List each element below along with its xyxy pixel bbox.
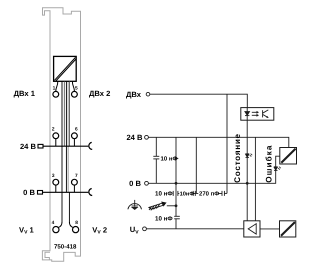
optocoupler phototransistor (263, 110, 269, 118)
svg-text:1: 1 (53, 85, 56, 91)
jumper contact fork row3 (89, 189, 92, 196)
Uv rail wire (147, 228, 244, 230)
wire bundle lead to 24V row (63, 81, 65, 146)
optocoupler light arrows (252, 111, 259, 117)
svg-text:10 нФ: 10 нФ (155, 191, 173, 198)
wire bundle lead to terminal 4 (61, 81, 63, 222)
terminal 1 (53, 91, 59, 97)
Uv terminal circle (143, 227, 147, 231)
svg-text:Ошибка: Ошибка (265, 145, 274, 183)
svg-text:ДВх 2: ДВх 2 (89, 89, 110, 98)
24V connector square (38, 144, 43, 148)
DVx terminal circle (146, 92, 150, 96)
svg-text:ДВх 1: ДВх 1 (14, 89, 36, 98)
svg-text:Состояние: Состояние (233, 133, 242, 183)
wire vertical rail v2 24V to cap row (195, 137, 197, 193)
junction dot earth-v1 (175, 204, 178, 207)
junction dot 0V-v1 (175, 182, 178, 185)
wire to terminal 8 (69, 222, 73, 228)
tick on node rail (175, 157, 179, 159)
svg-text:24 В: 24 В (126, 133, 143, 142)
capacitor C2 plates (172, 191, 174, 196)
status indicator box (280, 221, 296, 237)
module center seam (67, 82, 69, 193)
converter box U1 (54, 56, 77, 81)
svg-text:VV 1: VV 1 (19, 225, 35, 235)
terminal 5 (72, 91, 78, 97)
terminal 2 (53, 133, 59, 139)
error LED diode D2 (274, 167, 281, 171)
svg-text:0 В: 0 В (23, 188, 35, 197)
wire stem terminal 6 (73, 139, 75, 147)
error indicator box (280, 148, 297, 165)
terminal 7 (72, 179, 78, 185)
24V rail wire (149, 137, 289, 147)
wire to terminal 5 (72, 81, 74, 91)
earth row wire (167, 205, 176, 207)
DVx rail wire (150, 94, 247, 107)
terminal 6 (72, 133, 78, 139)
wire to terminal 4 (58, 222, 62, 228)
svg-text:2: 2 (52, 127, 55, 133)
svg-text:10нФ: 10нФ (180, 192, 195, 198)
svg-text:24 В: 24 В (20, 142, 37, 151)
wire to terminal 8 vertical (68, 192, 70, 222)
wire C1 to 0V (155, 159, 157, 183)
wire C5 to Uv rail (175, 219, 177, 229)
capacitor C5 on v1 plates (174, 215, 180, 217)
terminal 3 (53, 179, 59, 185)
capacitor C4 plates (198, 191, 224, 196)
wire stem terminal 7 (73, 185, 75, 192)
0V row wire (43, 191, 89, 193)
svg-text:10 нФ: 10 нФ (161, 155, 178, 162)
optocoupler U2 box (241, 108, 274, 121)
driver box with triangle (244, 221, 260, 237)
wire bundle lead to 0V row (65, 81, 67, 192)
svg-text:0 В: 0 В (129, 179, 141, 188)
module housing outline 750-418 (42, 8, 80, 261)
0V connector square (38, 191, 43, 195)
wire to terminal 1 (56, 81, 58, 91)
wire vertical rail v1 24V to C5 (175, 137, 177, 216)
capacitor C3 plates (179, 191, 195, 196)
wire C4 to DVx branch (224, 192, 227, 194)
wire 24V to C1 (155, 137, 157, 156)
wire stem terminal 2 (55, 139, 57, 147)
svg-text:VV 2: VV 2 (92, 225, 107, 235)
shield contact arrow symbol (149, 202, 167, 211)
svg-text:750-418: 750-418 (54, 244, 77, 251)
svg-text:8: 8 (75, 220, 78, 226)
svg-text:10 нФ: 10 нФ (155, 215, 173, 222)
DVx branch wire to cap row (226, 94, 228, 193)
capacitor C1 plates (153, 156, 159, 159)
24V row wire (43, 145, 88, 147)
functional earth symbol (128, 200, 142, 210)
svg-text:UV: UV (130, 225, 139, 235)
terminal 4 (53, 227, 59, 233)
jumper contact fork row2 (89, 142, 92, 149)
0V rail wire (149, 156, 280, 183)
svg-text:ДВх: ДВх (126, 90, 142, 99)
24V drop wire to driver (254, 137, 256, 221)
svg-text:270 пФ: 270 пФ (199, 191, 219, 198)
svg-text:5: 5 (75, 85, 78, 91)
status LED diode D1 (246, 154, 253, 158)
status line wire (246, 120, 248, 221)
wire driver to status indicator (260, 228, 280, 230)
svg-text:3: 3 (52, 173, 55, 179)
0V terminal circle (145, 181, 149, 185)
wire capacitor row (178, 192, 222, 194)
terminal 8 (73, 227, 79, 233)
24V terminal circle (145, 135, 149, 139)
optocoupler LED diode (245, 108, 250, 121)
wire bundle lead 24V row right (68, 81, 70, 146)
wire stem terminal 3 (55, 185, 57, 192)
svg-text:7: 7 (75, 173, 78, 179)
svg-text:6: 6 (75, 127, 78, 133)
svg-text:4: 4 (52, 220, 55, 226)
junction dot status-0V (246, 182, 249, 185)
